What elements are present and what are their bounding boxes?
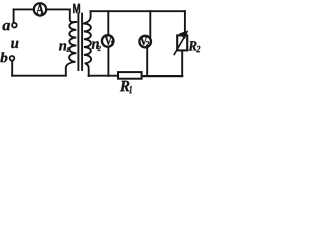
label V2 (voltmeter) bbox=[140, 37, 149, 46]
label A (ammeter) bbox=[36, 4, 44, 14]
rheostat R2 arrow bbox=[174, 36, 185, 55]
wire: top-left to ammeter bbox=[14, 8, 34, 10]
transformer core line right bbox=[81, 14, 83, 70]
label u (source voltage) bbox=[11, 41, 18, 48]
voltmeter V2 body bbox=[139, 36, 151, 48]
wire: ammeter to corner bbox=[47, 8, 70, 10]
label V1 (voltmeter) bbox=[105, 37, 113, 46]
ammeter A body bbox=[34, 3, 46, 15]
wire: secondary top lead bbox=[85, 11, 90, 23]
wire: R1 to V2 branch and R2 bbox=[142, 75, 183, 77]
transformer core line left bbox=[77, 14, 79, 70]
terminal a bbox=[12, 23, 17, 28]
wire: secondary bottom lead bbox=[86, 63, 89, 76]
wire: top rail of secondary circuit bbox=[91, 10, 185, 12]
wire: V2 branch lower bbox=[146, 47, 148, 76]
wire: V1 branch lower bbox=[107, 46, 109, 76]
wire: V1 branch upper bbox=[107, 11, 109, 35]
terminal b bbox=[10, 56, 15, 61]
wire: primary bottom lead bbox=[66, 62, 75, 76]
label R2 (rheostat) bbox=[188, 41, 200, 52]
wire: R2 branch upper bbox=[184, 11, 186, 35]
wire: terminal b drop bbox=[11, 61, 13, 76]
label a (terminal) bbox=[3, 23, 11, 30]
wire: bottom rail primary loop bbox=[12, 75, 65, 77]
label n1 (primary turns) bbox=[59, 43, 69, 51]
wire: bottom rail to R1 bbox=[89, 75, 118, 77]
wire: R2 branch lower bbox=[181, 50, 183, 76]
resistor R1 body bbox=[118, 72, 142, 79]
wire: V2 branch upper bbox=[149, 11, 151, 36]
label n2 (secondary turns) bbox=[92, 41, 101, 51]
wire: terminal a riser bbox=[13, 9, 15, 23]
transformer primary winding n1 bbox=[69, 22, 76, 62]
voltmeter V1 body bbox=[102, 35, 114, 47]
transformer secondary winding n2 bbox=[84, 24, 91, 64]
rheostat R2 arrowhead bbox=[179, 30, 188, 39]
label R1 (resistor) bbox=[120, 81, 132, 93]
label b (terminal) bbox=[0, 52, 7, 62]
rheostat R2 body bbox=[177, 35, 187, 50]
label M (transformer) bbox=[73, 4, 80, 13]
wire: corner drop to primary top bbox=[70, 9, 76, 22]
